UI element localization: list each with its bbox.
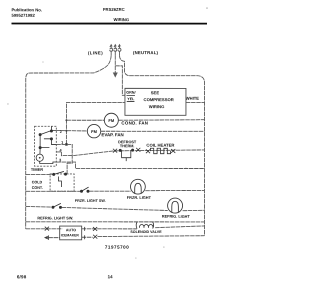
svg-text:THERM.: THERM. [120,144,135,148]
svg-text:FRZR. LIGHT SW.: FRZR. LIGHT SW. [75,199,106,203]
splice X6 [93,227,97,231]
wire frzr bulb to trunk [145,189,204,191]
compressor box [125,88,186,115]
svg-text:COIL HEATER: COIL HEATER [146,143,174,148]
svg-text:WHITE: WHITE [186,96,199,101]
wire switch to refrig bulb [62,207,168,210]
motor M1 cond fan [104,113,118,127]
wire solenoid to trunk [155,226,204,228]
svg-text:AUTO: AUTO [66,228,76,232]
svg-text:14: 14 [108,274,113,279]
wire feed bus to compressor [66,103,125,145]
node cond fan tap [65,119,67,121]
freezer light switch [80,187,89,192]
defrost thermostat [119,149,134,161]
svg-text:COLD: COLD [32,180,43,184]
heater element [150,148,170,153]
icemaker box [60,226,82,240]
motor M2 evap fan [87,124,100,137]
timer box [35,126,57,166]
splice X1 [113,149,117,153]
svg-text:GRN/: GRN/ [126,91,135,95]
cold control box [50,174,74,191]
cold control contacts [53,171,67,187]
wire arrow to icemaker [48,237,59,239]
svg-text:71975700: 71975700 [105,245,129,250]
wire neutral trunk (right) [119,55,204,235]
svg-text:SEE: SEE [151,90,160,95]
connector tick [84,235,86,239]
wire refrig light feed [26,205,52,208]
svg-text:COMPRESSOR: COMPRESSOR [144,97,174,102]
freezer light bulb [130,179,145,194]
svg-text:FRZR. LIGHT: FRZR. LIGHT [127,195,152,200]
wire long feed line [26,221,205,223]
plug prong GROUND [114,45,117,56]
svg-text:FRS26ZRC: FRS26ZRC [103,7,125,12]
wire cond fan feed [66,119,104,121]
splice X5 [45,227,49,231]
svg-text:CONT.: CONT. [32,186,43,190]
wire terminal 3 to trunk [56,162,204,168]
svg-text:(LINE): (LINE) [88,50,103,55]
svg-text:TIMER: TIMER [31,167,43,172]
wire switch to frzr bulb [89,190,131,192]
svg-text:YEL: YEL [127,97,135,101]
wire grn/yel to compressor [115,66,125,95]
wire icemaker to solenoid [82,228,137,230]
node bus junction [65,143,67,145]
wire icemaker to trunk bottom [82,236,205,238]
svg-text:REFRIG. LIGHT: REFRIG. LIGHT [162,215,191,219]
wire line trunk (left) [26,55,111,229]
svg-text:REFRIG. LIGHT SW.: REFRIG. LIGHT SW. [37,216,73,220]
wire terminal 1 to cold control [56,144,72,174]
ground wire [114,55,116,72]
refrig light bulb [168,198,183,213]
wire trunk to cold control [26,173,53,175]
svg-text:(NEUTRAL): (NEUTRAL) [133,50,159,55]
svg-text:SOLENOID VALVE: SOLENOID VALVE [130,230,162,234]
svg-text:FM: FM [108,118,114,123]
solenoid coil [136,222,154,229]
refrig light switch [52,203,62,208]
svg-text:COND. FAN: COND. FAN [121,120,148,125]
plug prong NEUTRAL [118,45,121,56]
wire refrig bulb to trunk [183,209,205,211]
svg-text:ICEMAKER: ICEMAKER [61,233,80,237]
node evap fan tap [65,130,67,132]
timer motor [36,154,43,161]
connector arrow [44,236,48,240]
svg-text:2: 2 [60,130,62,134]
splice X4 [171,149,175,153]
plug prong LINE [110,45,113,56]
svg-text:EVAP. FAN: EVAP. FAN [101,132,123,137]
wire compressor to neutral trunk [186,101,205,103]
ground arrow [113,72,118,77]
svg-text:6/98: 6/98 [17,274,27,279]
splice X7 [93,235,97,239]
wire frzr light feed [26,190,81,192]
wire cond fan to trunk [118,119,204,122]
splice X2 [136,148,140,152]
svg-text:5995271982: 5995271982 [11,13,35,18]
header rule [11,23,207,25]
wire evap fan to trunk [101,130,205,132]
wire evap fan feed [56,130,87,132]
wire terminal 4 heater line [56,150,204,156]
connector tick [84,227,86,231]
splice X3 [146,149,150,153]
svg-text:Publication No.: Publication No. [11,7,41,12]
svg-text:WIRING: WIRING [149,104,165,109]
wire trunk corner to icemaker top [26,228,62,230]
svg-text:WIRING: WIRING [113,17,129,22]
timer contact arm [39,126,56,148]
svg-text:FM: FM [91,129,97,134]
